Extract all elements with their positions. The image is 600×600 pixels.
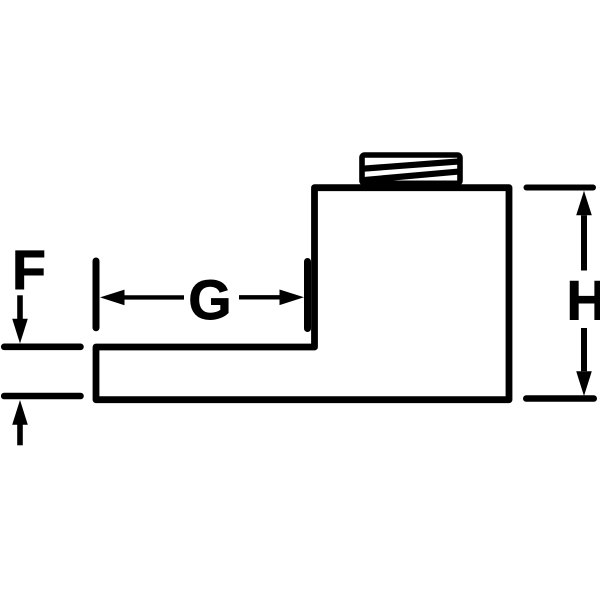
svg-text:F: F bbox=[12, 239, 46, 301]
H label bbox=[566, 269, 600, 331]
H extension line bottom bbox=[526, 395, 593, 402]
svg-text:H: H bbox=[566, 269, 600, 331]
knurl block border bbox=[362, 155, 460, 183]
H arrow down bbox=[576, 328, 592, 396]
G label bbox=[188, 269, 231, 331]
G extension line right bbox=[304, 262, 311, 329]
G arrow right bbox=[239, 290, 304, 306]
F arrow up bbox=[12, 400, 28, 445]
H arrow up bbox=[576, 191, 592, 271]
G arrow left bbox=[100, 290, 184, 306]
F arrow down bbox=[12, 295, 28, 343]
H extension line top bbox=[527, 185, 594, 191]
knurl hatch stripes bbox=[356, 161, 466, 181]
part outline (stepped tab profile) bbox=[96, 188, 509, 400]
F extension line bottom bbox=[4, 393, 80, 400]
G extension line left bbox=[93, 261, 100, 328]
F label bbox=[12, 239, 46, 301]
svg-text:G: G bbox=[188, 269, 231, 331]
F extension line top bbox=[4, 343, 80, 350]
